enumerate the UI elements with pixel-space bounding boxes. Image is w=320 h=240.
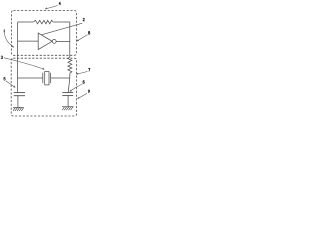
- ground (left): [13, 107, 24, 111]
- wire: right rail lower: [68, 73, 70, 92]
- wire: crystal right lead: [51, 77, 70, 79]
- label 9: [88, 90, 89, 93]
- leader for label 4: [45, 5, 57, 9]
- label 5: [4, 77, 6, 80]
- capacitor C5 (left) top plate: [14, 92, 25, 94]
- label 3: [1, 56, 3, 59]
- leader for label 8: [77, 35, 88, 42]
- wire: top rail right segment + right corner down: [53, 22, 70, 57]
- wire: crystal left lead: [18, 77, 43, 79]
- resistor R (feedback, horizontal): [33, 20, 53, 24]
- label 4: [59, 2, 61, 5]
- op-amp U1 (inverter triangle): [38, 33, 52, 50]
- label 1: [3, 30, 6, 32]
- wire: inverter input: [18, 40, 39, 42]
- resistor R2 (right, vertical): [68, 57, 72, 73]
- wire: top rail left segment: [18, 21, 34, 23]
- capacitor C6 (right) bottom plate: [62, 95, 73, 97]
- label 7: [88, 68, 90, 71]
- leader for label 6: [70, 84, 83, 92]
- crystal X1 left plate: [42, 73, 44, 84]
- leader for label 5: [6, 81, 15, 88]
- capacitor C6 (right) top plate: [62, 92, 73, 94]
- inverter output bubble: [52, 39, 56, 43]
- dashed box 8 (oscillation circuit, top): [11, 11, 76, 56]
- dashed box 9 (resonator unit, bottom): [11, 58, 76, 116]
- leader for label 7: [76, 71, 87, 74]
- crystal X1 body: [45, 72, 49, 85]
- wire: right cap to ground: [67, 96, 69, 107]
- label 8: [88, 31, 90, 34]
- leader for label 1: [4, 33, 13, 48]
- wire: left vertical rail: [17, 22, 19, 92]
- label 2: [83, 18, 85, 21]
- wire: left cap to ground: [17, 96, 19, 108]
- label 6: [83, 81, 84, 84]
- crystal X1 right plate: [50, 73, 52, 84]
- capacitor C5 (left) bottom plate: [14, 95, 25, 97]
- wire: inverter output: [56, 41, 70, 43]
- leader for label 3: [4, 58, 44, 70]
- leader for label 9: [78, 93, 87, 98]
- leader for label 2: [42, 23, 83, 35]
- ground (right): [62, 107, 74, 111]
